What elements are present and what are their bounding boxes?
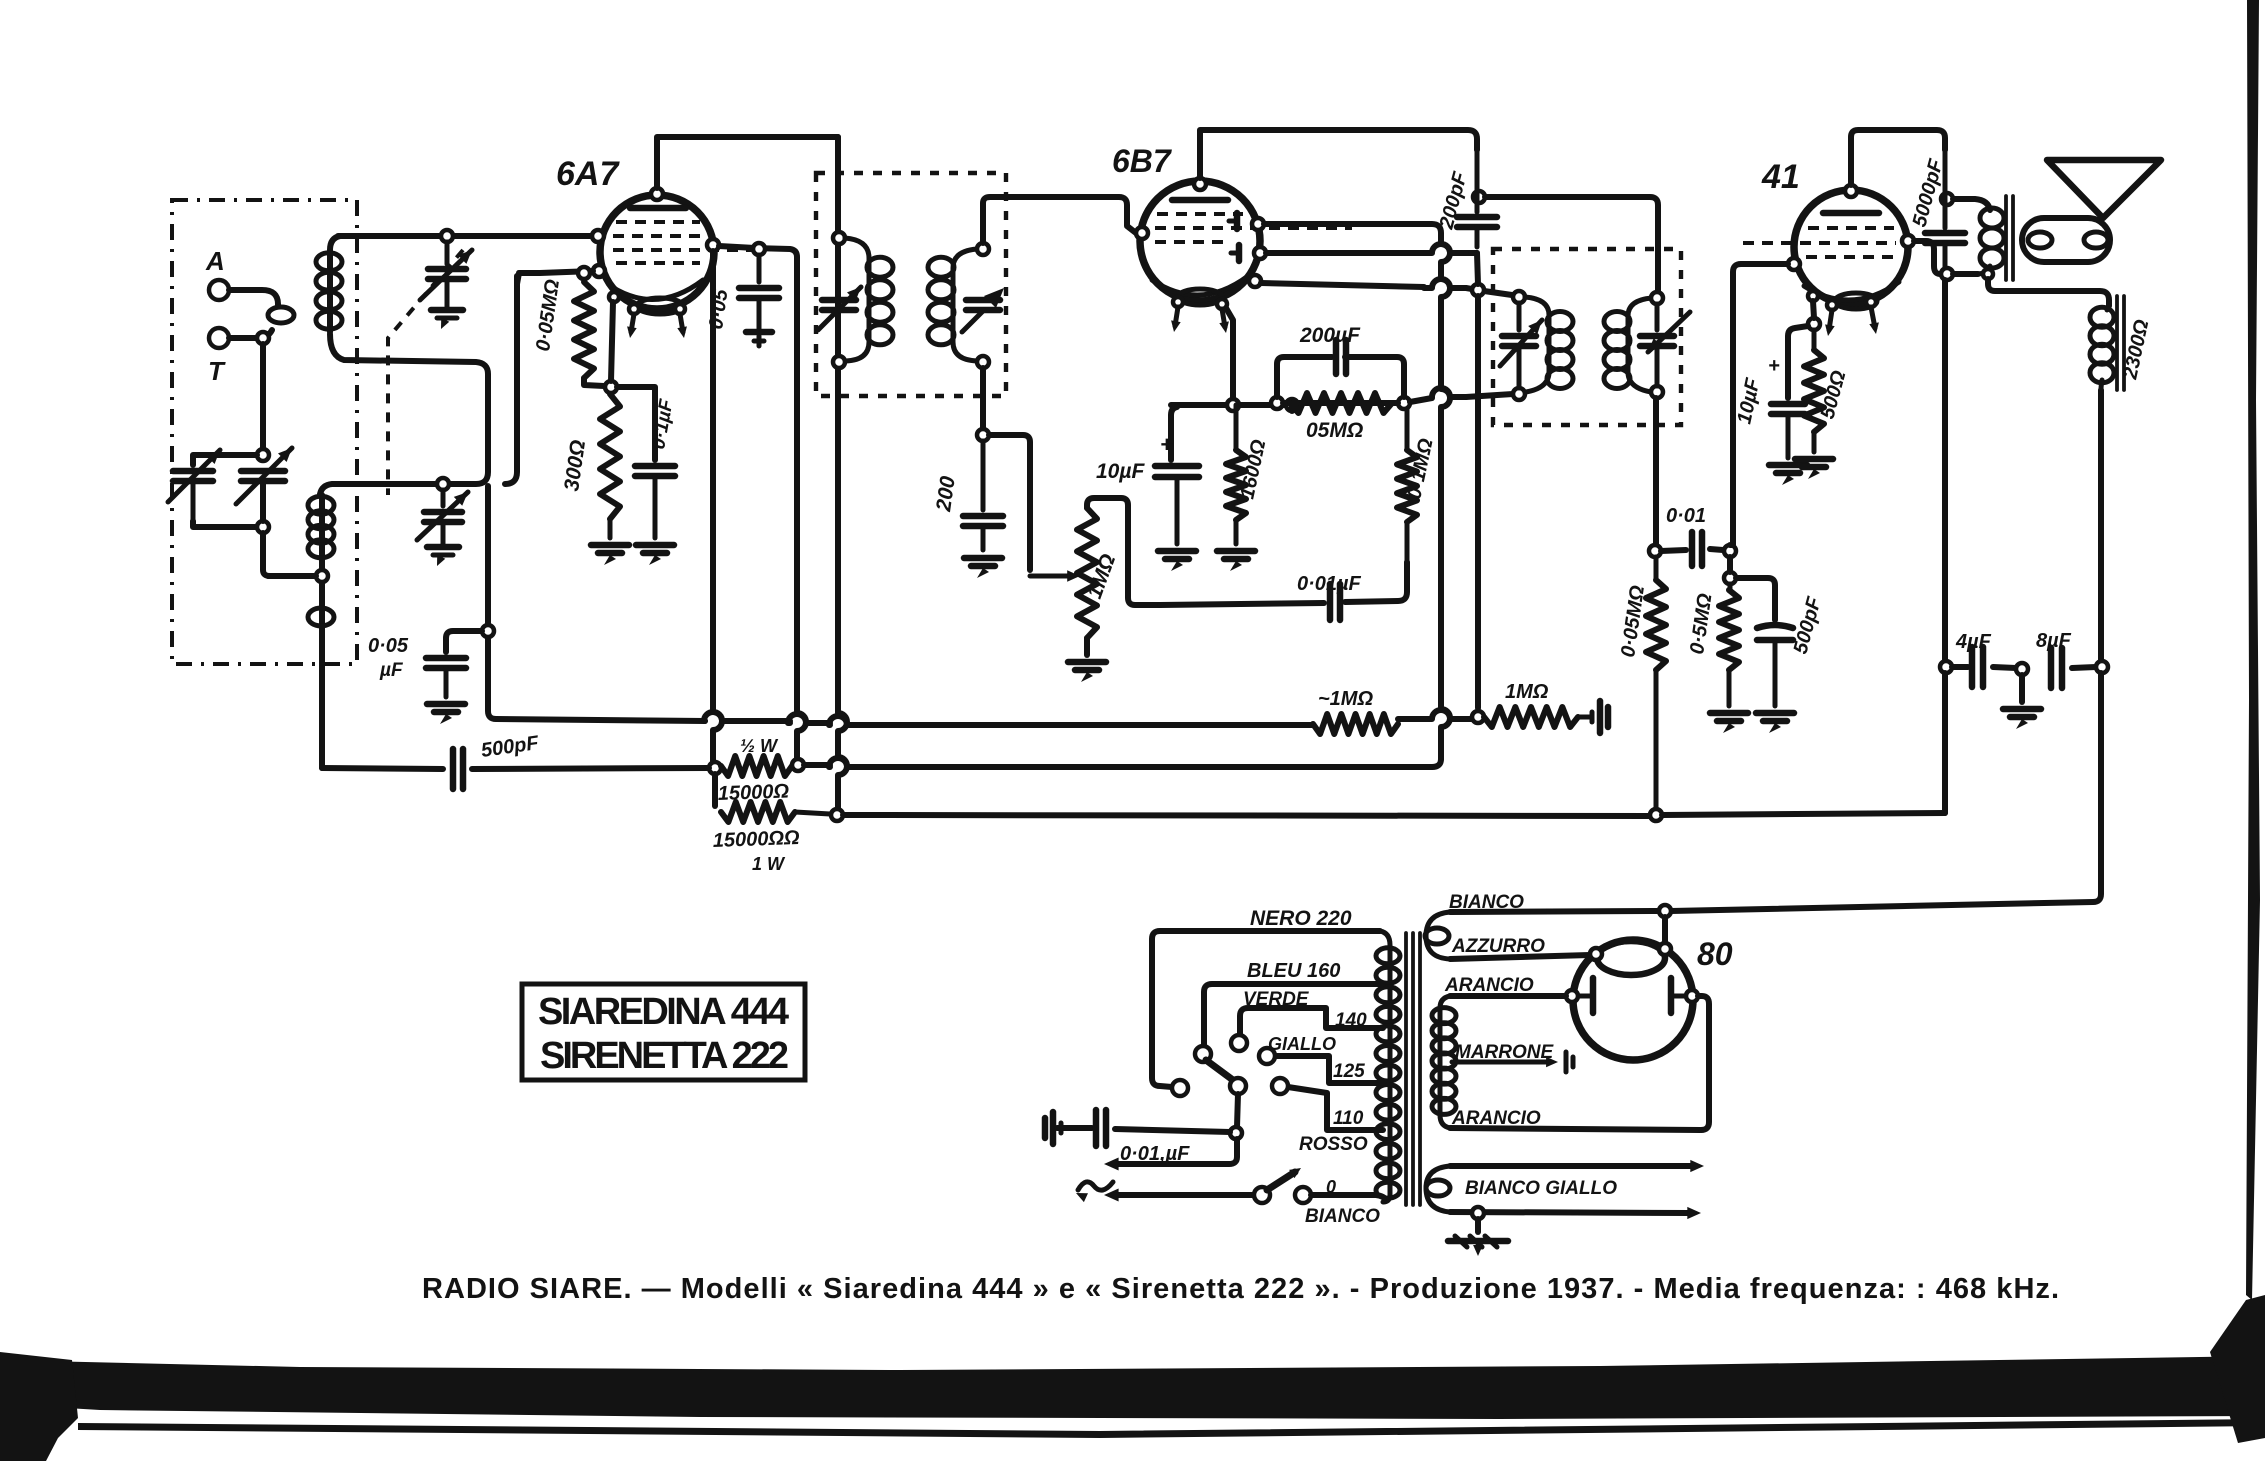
tube 6B7 cathode sleeve bbox=[1178, 289, 1222, 305]
ground under 300ohm bbox=[591, 542, 629, 549]
node IF1 top-right bbox=[977, 243, 989, 255]
node 41 cathode pin bbox=[1808, 291, 1818, 301]
wire plate to IF2 primary bbox=[1485, 197, 1658, 292]
wire 41 cathode to junction bbox=[1813, 301, 1814, 318]
scan artifact bottom-right blob bbox=[2210, 1295, 2265, 1443]
node 6A7 plate right pin bbox=[707, 239, 719, 251]
wire arm to arrow bbox=[1117, 1139, 1237, 1164]
antenna coil L1 bbox=[330, 236, 340, 332]
IF1 coil2 bbox=[953, 249, 977, 361]
wire gnd to cap bbox=[1057, 1125, 1092, 1131]
trimmer CT1 chassis tick bbox=[431, 307, 463, 314]
node 6B7 fil left bbox=[1173, 297, 1183, 307]
wire to gang cap 1 bbox=[193, 455, 257, 465]
wire B+ drop x1945 bbox=[1942, 280, 1948, 660]
svg-text:200µF: 200µF bbox=[1299, 324, 1361, 347]
trimmer capacitor CT2 plates bbox=[441, 490, 446, 506]
node 6B7 diode pin B bbox=[1254, 247, 1266, 259]
node 80 anode left pin bbox=[1566, 990, 1578, 1002]
ground under filter bbox=[2003, 706, 2041, 713]
svg-text:BIANCO: BIANCO bbox=[1305, 1206, 1380, 1227]
IF1 cap2 arrow bbox=[962, 310, 984, 332]
node 0.01 tee bbox=[1649, 545, 1661, 557]
wire T down bbox=[260, 344, 266, 449]
wire filter mid bbox=[1993, 667, 2016, 668]
variable capacitor C-osc-gang plates bbox=[241, 468, 285, 475]
wire 41 grid line bbox=[1730, 264, 1788, 545]
wire bus2 vertical x1441 bbox=[1441, 244, 1450, 759]
wire net200 left stub bbox=[1283, 400, 1398, 406]
node cathode net left bbox=[1227, 399, 1239, 411]
tube 6B7 filament arrow right bbox=[1222, 309, 1225, 327]
node IF2 bottom-left bbox=[1513, 388, 1525, 400]
node 0.5M top bbox=[1724, 572, 1736, 584]
scan artifact right edge bar bbox=[2246, 0, 2260, 1300]
resistor 1600ohm bbox=[1234, 405, 1239, 450]
svg-text:8µF: 8µF bbox=[2036, 630, 2072, 652]
scan artifact bottom thin line bbox=[78, 1419, 2265, 1438]
node 0.05uF tee bbox=[482, 625, 494, 637]
trimmer capacitor CT1 arrow bbox=[420, 250, 472, 300]
pot top corner bbox=[1087, 498, 1160, 605]
node 41 plate pin bbox=[1902, 235, 1914, 247]
svg-text:05MΩ: 05MΩ bbox=[1306, 419, 1363, 442]
resistor 1Mohm avc1 bbox=[1313, 714, 1398, 734]
svg-text:0·05: 0·05 bbox=[368, 635, 409, 657]
resistor 500ohm bbox=[1812, 330, 1817, 350]
IF2 dashed box bbox=[1493, 249, 1681, 425]
svg-text:T: T bbox=[208, 356, 226, 386]
node primary bottom bbox=[1983, 269, 1993, 279]
capacitor 0.01uF-avc plates bbox=[1327, 584, 1334, 620]
tube 80 anode right bbox=[1668, 978, 1675, 1013]
capacitor 0.05uF-osc plates bbox=[426, 655, 466, 662]
IF1 coil1 bbox=[845, 238, 869, 361]
ground under 1600ohm bbox=[1217, 548, 1255, 555]
mains arrow 2 line bbox=[1117, 1192, 1256, 1198]
wire filter mid ground bbox=[2019, 675, 2025, 702]
IF1 dashed box bbox=[816, 173, 1006, 396]
resistor 0.1Mohm bbox=[1405, 409, 1410, 450]
node 6B7 grid pin bbox=[1136, 227, 1148, 239]
svg-text:80: 80 bbox=[1697, 936, 1733, 972]
svg-text:SIAREDINA 444: SIAREDINA 444 bbox=[538, 991, 790, 1033]
svg-text:~1MΩ: ~1MΩ bbox=[1318, 688, 1373, 710]
svg-text:NERO 220: NERO 220 bbox=[1250, 907, 1352, 930]
node 80 anode right pin bbox=[1686, 990, 1698, 1002]
wire B+ to bus3 bbox=[1942, 673, 1948, 813]
node IF1 bottom-left bbox=[833, 356, 845, 368]
svg-text:0·01: 0·01 bbox=[1666, 505, 1706, 527]
potentiometer 1Mohm bbox=[1077, 508, 1097, 638]
wire diodeC to IF2 bbox=[1261, 283, 1424, 287]
wire 10uF drop bbox=[1171, 407, 1177, 460]
transformer core bbox=[1404, 933, 1408, 1205]
node 80 top-right bbox=[1659, 943, 1671, 955]
svg-text:4µF: 4µF bbox=[1955, 631, 1992, 653]
resistor 0.5Mohm diode load bbox=[1290, 393, 1392, 413]
wire IF2 sec bottom drop bbox=[1653, 398, 1659, 545]
node AVC junction bbox=[1472, 284, 1484, 296]
wire cath to 10uF bbox=[1788, 326, 1808, 398]
output transformer primary bbox=[1980, 208, 2004, 228]
wire cap2 lower bbox=[260, 481, 266, 521]
node 200pF rail tee bbox=[1473, 191, 1485, 203]
wire gang to coil bbox=[263, 533, 318, 576]
node 6A7 grid4 pin bbox=[593, 265, 605, 277]
capacitor 200uF branch bbox=[1277, 357, 1332, 397]
node filter right bbox=[2096, 661, 2108, 673]
scan artifact bottom-left corner bbox=[0, 1352, 78, 1461]
wire 6B7 cathode drop bbox=[1226, 308, 1233, 399]
tube 6A7 filament arrow right bbox=[680, 314, 683, 332]
ground right of 1M2 bbox=[1597, 701, 1604, 733]
tube 6B7 envelope bbox=[1140, 181, 1260, 301]
wire cathode to 0.1uF bbox=[617, 387, 655, 460]
node osc trimmer tee bbox=[437, 478, 449, 490]
wire VERDE tap bbox=[1240, 1008, 1383, 1035]
wire bianco to tube top bbox=[1662, 917, 1668, 943]
wire bus3 right bbox=[1662, 813, 1945, 815]
svg-text:+: + bbox=[1768, 355, 1780, 377]
tube 41 cathode arc bbox=[1804, 282, 1899, 300]
terminal T bbox=[209, 328, 229, 348]
node IF2 bottom-right bbox=[1651, 386, 1663, 398]
capacitor 0.01uF-mains plates bbox=[1093, 1110, 1100, 1146]
capacitor 200pF plates bbox=[1475, 150, 1480, 212]
node 6B7 diode pin C bbox=[1249, 275, 1261, 287]
ground 0.01uF-mains bbox=[1050, 1112, 1057, 1144]
node bus1 avc bbox=[1472, 711, 1484, 723]
capacitor 0.1uF plates bbox=[635, 463, 675, 470]
IF2 cap2 arrow bbox=[1648, 312, 1690, 352]
wire tee right bbox=[989, 435, 1030, 570]
tube 41 cathode sleeve bbox=[1835, 293, 1877, 309]
node BIANCO junction bbox=[1659, 905, 1671, 917]
ground under 500ohm bbox=[1795, 456, 1833, 463]
antenna coupling loop bbox=[268, 307, 294, 323]
IF2 cap1 arrow bbox=[1500, 320, 1542, 366]
node IF1 top-left bbox=[833, 232, 845, 244]
node 5000pF top tee bbox=[1941, 193, 1953, 205]
variable capacitor C-osc-gang arrow bbox=[236, 448, 292, 504]
ground winged BG bbox=[1448, 1238, 1508, 1245]
node 0.01uF-mains tee bbox=[1230, 1127, 1242, 1139]
tube 6A7 cathode sleeve bbox=[637, 298, 683, 314]
winding BIANCO-AZZURRO loop bbox=[1426, 912, 1450, 959]
wire gang cap bottoms bbox=[193, 521, 258, 527]
svg-text:6B7: 6B7 bbox=[1112, 143, 1173, 179]
tube 80 filament loop bbox=[1597, 941, 1665, 975]
capacitor 500pF-g plates bbox=[1757, 625, 1793, 628]
wire BG ground drop bbox=[1475, 1219, 1481, 1232]
tube 41 filament arrow right bbox=[1871, 307, 1875, 328]
svg-text:10µF: 10µF bbox=[1096, 460, 1145, 483]
ground under pot bbox=[1068, 659, 1106, 666]
tube 6B7 diode plate 1 bbox=[1234, 213, 1241, 229]
IF2 cap2 plates bbox=[1655, 304, 1660, 330]
capacitor 500pF-osc plates bbox=[450, 749, 457, 789]
svg-text:1MΩ: 1MΩ bbox=[1505, 681, 1549, 703]
wire cathode right ext bbox=[1289, 405, 1295, 411]
node 0.05 cap top bbox=[753, 243, 765, 255]
variable capacitor C-ant arrow bbox=[168, 450, 220, 502]
resistor 15000 halfW bbox=[721, 756, 792, 776]
wire avc drop bbox=[1475, 296, 1481, 708]
wire res2 link bbox=[712, 774, 718, 806]
svg-text:BLEU 160: BLEU 160 bbox=[1247, 960, 1340, 982]
trimmer capacitor CT1 plates bbox=[445, 242, 450, 264]
wire 200pF bottom avc bbox=[1477, 253, 1478, 284]
capacitor 200 plates bbox=[981, 441, 986, 510]
wire filter right stub bbox=[2072, 667, 2096, 668]
node net200 right bbox=[1398, 397, 1410, 409]
node bus2 left bbox=[709, 762, 721, 774]
switch arm bbox=[1206, 1060, 1233, 1080]
tube 6A7 filament arrow left bbox=[631, 314, 634, 332]
capacitor 10uF-6B7 plates bbox=[1155, 463, 1199, 470]
wire field coil down bbox=[2098, 390, 2104, 660]
node 6A7 cathode pin bbox=[609, 292, 619, 302]
capacitor 5000pF plates bbox=[1943, 150, 1948, 228]
svg-text:SIRENETTA 222: SIRENETTA 222 bbox=[540, 1035, 790, 1077]
node 6A7 fil pin left bbox=[629, 304, 639, 314]
node cathode junction bbox=[605, 381, 617, 393]
field coil core bbox=[2115, 296, 2119, 390]
node 6B7 fil right bbox=[1217, 299, 1227, 309]
node IF1 bottom-right bbox=[977, 356, 989, 368]
tube 6B7 filament arrow left bbox=[1175, 307, 1178, 326]
resistor 1Mohm avc2 bbox=[1484, 707, 1578, 727]
svg-text:ARANCIO: ARANCIO bbox=[1444, 975, 1534, 996]
node NERO common bbox=[1172, 1080, 1188, 1096]
svg-text:0·01µF: 0·01µF bbox=[1297, 573, 1362, 595]
capacitor 0.05 plates bbox=[757, 255, 762, 282]
wire arm down bbox=[1237, 1094, 1238, 1127]
node bus3 avc bbox=[1650, 809, 1662, 821]
resistor 0.05Mohm grid bbox=[574, 282, 594, 378]
gang link dashed line bbox=[388, 250, 463, 495]
tube 41 envelope bbox=[1794, 190, 1908, 304]
ground under 10uF-6B7 bbox=[1158, 548, 1196, 555]
node GIALLO terminal bbox=[1259, 1048, 1275, 1064]
wire screen drop x797 bbox=[797, 266, 806, 762]
wire 0.01 to 0.5M bbox=[1727, 557, 1733, 572]
wire NERO bbox=[1152, 931, 1380, 1087]
node 110 terminal bbox=[1272, 1078, 1288, 1094]
wire 500pF to bus2node bbox=[472, 768, 709, 769]
node 41 top pin bbox=[1845, 185, 1857, 197]
IF1 cap2 plates bbox=[966, 297, 1000, 304]
mains squiggle bbox=[1078, 1182, 1113, 1190]
scan artifact bottom band bbox=[0, 1356, 2265, 1419]
wire switch to winding bbox=[1311, 1195, 1386, 1200]
speaker voice coil bbox=[2022, 218, 2110, 262]
node net200 left bbox=[1271, 397, 1283, 409]
svg-text:RADIO SIARE. — Modelli « Siare: RADIO SIARE. — Modelli « Siaredina 444 »… bbox=[422, 1273, 2059, 1305]
resistor 0.5Mohm grid bbox=[1728, 584, 1733, 590]
svg-text:41: 41 bbox=[1761, 158, 1800, 196]
node switch right bbox=[1295, 1187, 1311, 1203]
wire MARRONE tap bbox=[1452, 1060, 1548, 1065]
wire field to bianco bbox=[1671, 673, 2101, 911]
tube 80 anode left bbox=[1590, 978, 1597, 1013]
node 41 fil left bbox=[1827, 300, 1837, 310]
node cathode net right bbox=[1286, 399, 1298, 411]
svg-text:140: 140 bbox=[1335, 1010, 1367, 1031]
wire primary bottom bbox=[1953, 271, 1978, 277]
wire 110 tap bbox=[1288, 1087, 1383, 1130]
wire IF1 sec bottom drop bbox=[980, 368, 986, 429]
wire bus1 left corner bbox=[488, 638, 705, 721]
wire 0.01uF line bbox=[1160, 603, 1324, 605]
ground under 0.1uF bbox=[636, 542, 674, 549]
antenna section dash-dot box bbox=[172, 200, 357, 664]
ground under 10uF-41 bbox=[1769, 462, 1807, 469]
node osc coil tap bbox=[316, 570, 328, 582]
wire cap to tee bbox=[1115, 1129, 1230, 1132]
tube 6B7 diode plate 2 bbox=[1236, 245, 1243, 261]
pot wiper arrow bbox=[1030, 574, 1068, 579]
svg-text:ROSSO: ROSSO bbox=[1299, 1134, 1368, 1155]
node 41 fil right bbox=[1866, 297, 1876, 307]
trimmer capacitor CT2 arrow bbox=[417, 492, 468, 540]
IF1 cap1 arrow bbox=[818, 287, 861, 330]
svg-text:AZZURRO: AZZURRO bbox=[1451, 936, 1545, 957]
wire 6A7 plate line x838 bbox=[838, 137, 847, 812]
tube 6A7 envelope bbox=[600, 195, 714, 309]
node 6A7 fil pin right bbox=[675, 304, 685, 314]
svg-text:0·01,µF: 0·01,µF bbox=[1120, 1143, 1190, 1165]
output transformer core bbox=[2004, 196, 2008, 280]
svg-text:6A7: 6A7 bbox=[556, 155, 620, 193]
resistor 15000 oneW bbox=[721, 802, 795, 822]
node 80 top-left bbox=[1590, 948, 1602, 960]
tube 41 filament arrow left bbox=[1829, 310, 1832, 330]
resistor 0.05Mohm avc bbox=[1654, 557, 1659, 580]
capacitor 4uF plates bbox=[1969, 647, 1976, 687]
wire 41 plate to rail bbox=[1851, 130, 1945, 185]
cap 0.05 chassis tick bbox=[757, 298, 762, 330]
node 5000pF bottom tee bbox=[1941, 268, 1953, 280]
IF1 cap1 plates bbox=[822, 297, 856, 304]
wire to field coil bbox=[1988, 279, 2109, 306]
node 0.01 right bbox=[1724, 545, 1736, 557]
svg-text:A: A bbox=[205, 246, 225, 276]
wire 6A7 plate to rail bbox=[657, 137, 838, 188]
wire net200 to IF2 bottom bbox=[1410, 398, 1432, 402]
wire plate drop x713 bbox=[713, 251, 722, 764]
wire cathode bus bbox=[1171, 402, 1286, 408]
wire diodeB to 200pF bottom bbox=[1266, 244, 1471, 253]
node IF2 top-left bbox=[1513, 291, 1525, 303]
node IF2 top-right bbox=[1651, 292, 1663, 304]
capacitor 0.01 plates bbox=[1661, 550, 1686, 551]
svg-text:µF: µF bbox=[379, 660, 404, 681]
svg-text:110: 110 bbox=[1333, 1108, 1364, 1129]
node gang bottom bbox=[257, 521, 269, 533]
IF2 coil1 bbox=[1525, 297, 1549, 392]
wire tap to T line bbox=[268, 573, 316, 579]
wire bus3 bbox=[843, 815, 1649, 816]
wire 6A7 screen right bbox=[719, 246, 797, 266]
oscillator coil L2 bbox=[319, 495, 325, 768]
tube 6B7 plate bar bbox=[1172, 197, 1228, 204]
model label box bbox=[522, 984, 805, 1080]
wire BLEU tap bbox=[1204, 984, 1383, 1046]
wire IF1 to 6B7 grid bbox=[983, 197, 1136, 243]
wire primary top bbox=[1953, 199, 1990, 210]
node 6B7 top pin bbox=[1194, 178, 1206, 190]
wire 0.05M bottom bbox=[584, 378, 604, 386]
node 41 grid pin bbox=[1788, 258, 1800, 270]
IF2 coil2 bbox=[1628, 298, 1652, 392]
svg-text:½ W: ½ W bbox=[740, 736, 779, 756]
pot bottom bbox=[1084, 638, 1090, 655]
wire 41 plate to 5000pF bbox=[1914, 241, 1940, 274]
wire 6B7 plate to rail bbox=[1200, 130, 1477, 178]
mains arrow 1 bbox=[1104, 1158, 1119, 1171]
resistor 300ohm bbox=[600, 394, 620, 519]
wire T to hook bbox=[229, 330, 272, 338]
wire bus2 bbox=[804, 762, 830, 768]
capacitor 10uF-41 plates bbox=[1771, 401, 1805, 408]
tube 6B7 grids dashed bbox=[1157, 212, 1243, 216]
svg-text:BIANCO GIALLO: BIANCO GIALLO bbox=[1465, 1178, 1617, 1199]
wire bus1 mid bbox=[704, 712, 790, 721]
ground under 200 bbox=[964, 555, 1002, 562]
tube 41 plate bar bbox=[1823, 210, 1879, 217]
svg-text:1 W: 1 W bbox=[752, 854, 786, 874]
speaker horn bbox=[2047, 160, 2161, 218]
node VERDE terminal bbox=[1231, 1035, 1247, 1051]
wire BG top bbox=[1450, 1163, 1692, 1169]
node 6A7 top pin bbox=[651, 188, 663, 200]
node 41 cath junction bbox=[1808, 318, 1820, 330]
wire BG bottom bbox=[1450, 1212, 1689, 1213]
wire bus1 to node bbox=[1398, 710, 1472, 719]
svg-text:0: 0 bbox=[1326, 1177, 1336, 1197]
mains arrow 2 bbox=[1104, 1189, 1119, 1202]
node tuning junction bbox=[257, 449, 269, 461]
ground under 500pF-g bbox=[1756, 710, 1794, 717]
transformer primary winding bbox=[1380, 931, 1390, 1202]
wire 1M2 to ground bbox=[1578, 715, 1592, 720]
wire antenna top bbox=[338, 233, 592, 239]
node bus2 res right bbox=[792, 759, 804, 771]
wire 500pF branch bbox=[1736, 578, 1775, 620]
ground under 0.05uF-osc bbox=[427, 701, 465, 708]
node arm pivot bbox=[1230, 1078, 1246, 1094]
ground under 0.5M bbox=[1710, 710, 1748, 717]
node BLEU terminal bbox=[1195, 1046, 1211, 1062]
wire ARANCIO bottom bbox=[1450, 1128, 1700, 1130]
wire AZZURRO bbox=[1450, 955, 1590, 959]
node filter left bbox=[1940, 661, 1952, 673]
tube 6A7 cathode arc bbox=[612, 280, 703, 299]
switch blade bbox=[1267, 1172, 1295, 1190]
svg-text:15000ΩΩ: 15000ΩΩ bbox=[712, 827, 800, 852]
wire 500pF osc line bbox=[322, 768, 443, 769]
node T junction bbox=[257, 332, 269, 344]
capacitor 8uF plates bbox=[2048, 648, 2055, 688]
tube 6A7 grids dashed bbox=[616, 220, 700, 224]
antenna hook wire bbox=[229, 290, 278, 306]
variable capacitor C-ant plates bbox=[173, 468, 213, 475]
node BG ground tee bbox=[1472, 1207, 1484, 1219]
node 6A7 grid1 pin bbox=[592, 230, 604, 242]
winding BIANCO GIALLO bbox=[1426, 1166, 1450, 1212]
